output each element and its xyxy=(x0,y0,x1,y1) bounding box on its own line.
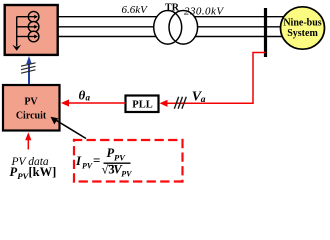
wire phase B (middle) xyxy=(39,26,281,28)
svg-text:Circuit: Circuit xyxy=(16,110,47,121)
wire: Va feedback from bus to PLL (red) xyxy=(160,53,266,107)
wire: blue current injection arrow PV Circuit -> PV source box xyxy=(26,56,32,84)
wire: internal vertical bus to ground xyxy=(17,17,29,47)
svg-text:230.0kV: 230.0kV xyxy=(184,5,224,17)
wire phase C (bottom) xyxy=(39,36,284,38)
svg-text:a: a xyxy=(86,93,91,103)
wire: black arrow from equation box to PV Circuit xyxy=(51,117,87,139)
PV source box xyxy=(5,5,58,55)
equation box (dashed) xyxy=(73,139,183,183)
label theta_a xyxy=(79,88,91,103)
3-phase slash marks on Va wire xyxy=(174,97,186,109)
svg-text:PV: PV xyxy=(114,152,126,162)
svg-text:System: System xyxy=(287,28,318,39)
PLL U1 xyxy=(126,96,159,113)
wire: theta_a from PLL to PV Circuit (red) xyxy=(61,99,126,106)
svg-text:PV: PV xyxy=(82,161,93,170)
svg-text:Nine-bus: Nine-bus xyxy=(283,17,321,28)
label Va xyxy=(192,90,206,105)
current source 2 xyxy=(28,22,39,33)
svg-text:I: I xyxy=(75,153,82,168)
wire phase A (top) xyxy=(39,16,284,18)
svg-text:=: = xyxy=(93,153,100,168)
svg-text:PV: PV xyxy=(24,97,38,108)
3-phase slash marks on blue wire xyxy=(21,63,36,73)
svg-text:TR: TR xyxy=(165,2,180,13)
Nine-bus System xyxy=(281,7,325,49)
bus bar xyxy=(264,8,267,57)
svg-text:PV: PV xyxy=(121,169,132,178)
PV Circuit block xyxy=(3,85,60,131)
current source 1 xyxy=(28,11,39,22)
equation I_PV = P_PV / (sqrt3 V_PV) xyxy=(75,146,132,178)
ground xyxy=(12,45,21,51)
svg-text:[kW]: [kW] xyxy=(29,165,57,179)
svg-text:θ: θ xyxy=(79,88,86,103)
svg-text:PLL: PLL xyxy=(132,99,152,110)
wire: red PV data arrow into PV Circuit xyxy=(25,132,31,149)
label P_PV [kW] xyxy=(10,165,57,181)
svg-text:6.6kV: 6.6kV xyxy=(122,4,149,16)
transformer TR xyxy=(154,11,198,45)
svg-text:a: a xyxy=(201,95,206,105)
current source 3 xyxy=(28,31,39,42)
